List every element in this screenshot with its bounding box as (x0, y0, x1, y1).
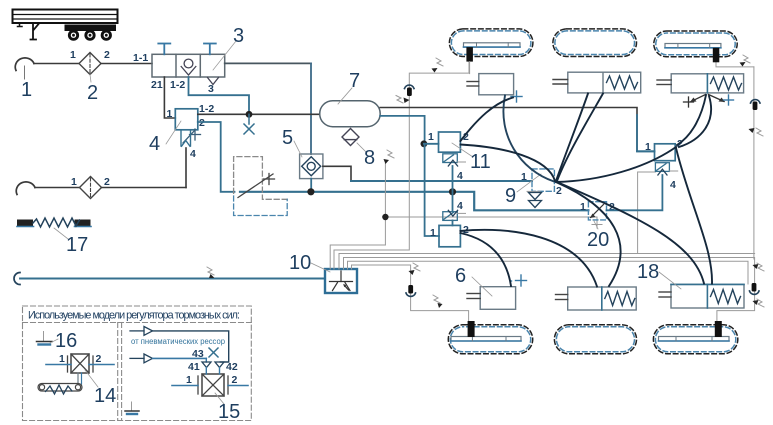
test point V1 y266 (753, 263, 765, 271)
symbol 16 (37, 332, 53, 345)
curve TM chamber left to P (556, 94, 588, 182)
tractor dashed outline (234, 157, 288, 216)
drain X below junction (244, 114, 254, 134)
brake cam plug T3 (713, 48, 720, 63)
label 8 (357, 143, 375, 169)
test point near axle T1 (432, 58, 444, 73)
svg-text:14: 14 (94, 385, 116, 407)
test point V1 y130 (749, 128, 764, 136)
port labels 14 (59, 353, 102, 365)
port labels valve 4 (167, 103, 215, 160)
blue bus L2 (240, 192, 588, 211)
wire valve 11 port4 down (452, 166, 454, 211)
curve TR divider to right valve port2 steep (677, 95, 706, 145)
port labels valve 20 (580, 201, 615, 213)
svg-text:16: 16 (55, 330, 77, 352)
port labels right valve (645, 138, 683, 191)
svg-text:3: 3 (208, 83, 214, 95)
brake chamber top-left (467, 74, 514, 281)
svg-text:1: 1 (70, 49, 76, 61)
valve 3 test ports (158, 44, 216, 55)
models box (23, 306, 252, 421)
svg-text:4: 4 (149, 133, 160, 155)
svg-text:1: 1 (580, 201, 586, 213)
svg-text:9: 9 (505, 185, 516, 207)
curve valve11 port2 to P (460, 145, 555, 182)
svg-text:41: 41 (188, 361, 200, 373)
wire 5 right to L1 (323, 166, 351, 181)
svg-text:7: 7 (349, 70, 360, 92)
svg-text:6: 6 (455, 265, 466, 287)
svg-text:15: 15 (218, 401, 240, 423)
hand lever symbol (238, 174, 275, 198)
test point near axle T3 (740, 55, 751, 67)
svg-text:1: 1 (428, 131, 434, 143)
svg-text:8: 8 (364, 147, 375, 169)
curve P to right valve port2 (556, 147, 676, 182)
port labels filter 2 (70, 49, 110, 61)
valve 4 check valve port 4 (181, 130, 191, 147)
wire right valve port1 (637, 150, 655, 152)
lower relay valve check valve (443, 210, 458, 220)
svg-text:1-1: 1-1 (133, 52, 148, 64)
svg-text:17: 17 (66, 234, 88, 256)
node junction on 1-2 line (246, 111, 253, 118)
brake chamber top-right spring (657, 74, 744, 93)
label 16 (50, 330, 77, 352)
svg-text:4: 4 (457, 200, 463, 212)
label 11 (452, 143, 491, 173)
svg-text:3: 3 (233, 25, 244, 47)
svg-text:1: 1 (59, 353, 65, 365)
svg-text:2: 2 (556, 185, 562, 197)
chamber 6 (467, 287, 516, 310)
svg-text:1-2: 1-2 (170, 79, 185, 91)
valve 20 dashed (588, 202, 606, 220)
svg-text:4: 4 (670, 179, 676, 191)
svg-text:18: 18 (637, 261, 659, 283)
wire valve4 port2 to bus (198, 122, 235, 192)
label 4 (149, 121, 181, 155)
long blue line to valve 10 (14, 273, 325, 285)
43 cross (209, 348, 218, 357)
plus chamber 6 (516, 275, 527, 286)
filter lower (80, 177, 102, 199)
test point on y310 line (433, 295, 443, 308)
plus top-left chamber (511, 91, 522, 102)
test point V1 y302 (753, 299, 765, 307)
axle oval B3 (653, 325, 737, 354)
curve P to BM chamber right (557, 183, 621, 287)
svg-text:5: 5 (282, 127, 293, 149)
label 3 (213, 25, 244, 70)
axle bar T1 (464, 43, 521, 47)
wire 20 port2 to right valve port4 (607, 175, 663, 210)
exhaust bottom right V1 (750, 283, 760, 294)
control bundle from valve 10 (330, 62, 754, 321)
axle oval T2 (553, 29, 637, 57)
wire 2 to 3 (101, 63, 152, 65)
axle bar B3 (659, 337, 730, 342)
svg-text:20: 20 (587, 229, 609, 251)
svg-text:Используемые модели регулятора: Используемые модели регулятора тормозных… (28, 310, 240, 322)
wire lower filter to valve4 port4 (102, 187, 187, 189)
svg-text:2: 2 (199, 117, 205, 129)
brake cam plug T1 (466, 47, 473, 62)
svg-text:4: 4 (457, 170, 463, 182)
axle oval B1 (448, 325, 532, 354)
node bus junction x452 (449, 188, 456, 195)
svg-text:21: 21 (151, 79, 163, 91)
svg-text:1: 1 (167, 108, 173, 120)
filter 2 (79, 53, 101, 75)
label 15 (215, 393, 240, 423)
port labels filter lower (71, 176, 110, 188)
triangle feed 2 (130, 354, 206, 363)
exhaust symbol right box (125, 402, 139, 414)
silencer on x409 (396, 85, 414, 103)
svg-text:2: 2 (104, 176, 110, 188)
valve 10 (325, 269, 357, 293)
svg-text:1: 1 (430, 227, 436, 239)
curve P to 18 left (557, 182, 704, 284)
chamber bottom-middle spring (556, 287, 637, 310)
axle oval T1 (449, 29, 533, 57)
svg-text:2: 2 (96, 353, 102, 365)
lower relay valve (439, 225, 460, 246)
relief valve 9 dashed (527, 169, 554, 192)
label 14 (85, 370, 116, 407)
port labels valve 11 (428, 131, 469, 182)
wire 5 down to bus (310, 179, 312, 192)
valve 15 (172, 368, 248, 397)
svg-text:1: 1 (186, 374, 192, 386)
brake cam plug B1 (468, 321, 475, 337)
svg-text:2: 2 (87, 82, 98, 104)
port labels lower valve (430, 224, 469, 239)
curve lower valve port2 to chamber6 (460, 233, 511, 286)
svg-text:1: 1 (21, 79, 32, 101)
brake cam plug B3 (715, 321, 722, 337)
blue bus L1 (351, 180, 532, 182)
svg-text:1: 1 (521, 171, 527, 183)
label 17 (54, 228, 88, 256)
wire 3 out right to reservoir column (225, 62, 311, 64)
svg-text:1-2: 1-2 (199, 103, 214, 115)
exhaust on x410 lower segment (406, 285, 416, 296)
node port1 valve 11 (421, 140, 428, 147)
reservoir 7 (320, 101, 381, 127)
right valve check valve (655, 163, 669, 175)
wire to valve 11 port1 (424, 143, 439, 145)
svg-text:2: 2 (232, 374, 238, 386)
wire lower coupling to filter (35, 187, 80, 189)
spring 17 (17, 218, 91, 227)
curve chamber TL to P (503, 96, 554, 182)
right sub-box: triangle feed 1 (130, 327, 229, 363)
valve 3 exhaust V port 3 (208, 78, 219, 85)
valve 4 (175, 109, 198, 130)
line A blue corner overlay (637, 115, 655, 151)
label 18 (637, 261, 681, 289)
wire 3 port21 to valve4 port1 (164, 77, 175, 118)
valve 4 adjust + (183, 129, 201, 143)
label 6 (455, 265, 492, 296)
wire valve4 port4 from filter line (185, 148, 187, 188)
label 5 (282, 127, 302, 157)
chamber 18 spring (659, 284, 744, 308)
exhaust double V under 9 (529, 193, 542, 208)
test point on x410 lower segment (409, 263, 421, 275)
check valves 41 42 (202, 362, 224, 368)
svg-text:1: 1 (71, 176, 77, 188)
test point top of x385 (384, 150, 395, 164)
silencer top right V1 (751, 100, 761, 110)
coupling head lower (16, 182, 35, 195)
label 7 (338, 70, 360, 104)
label 2 (87, 75, 98, 105)
trailer icon (13, 10, 118, 41)
svg-text:11: 11 (470, 151, 491, 173)
label 1 (21, 66, 32, 101)
label 9 (505, 174, 541, 207)
release arrows under top-right chamber (684, 95, 726, 108)
curve lower valve port2 to BM chamber (460, 230, 597, 287)
right relay valve (655, 144, 676, 161)
svg-text:от пневматических рессор: от пневматических рессор (131, 337, 226, 346)
wire valve4 port1-2 to reservoir (198, 113, 320, 115)
svg-text:2: 2 (104, 49, 110, 61)
node bus junction x311 (307, 188, 314, 195)
wire 3 port1-2 down right (189, 77, 250, 111)
wire lower check to lower valve (452, 220, 454, 225)
axle bar T3 (665, 44, 721, 48)
valve block 3 (152, 54, 225, 77)
svg-text:10: 10 (289, 252, 311, 274)
test point on long line (207, 267, 215, 278)
axle bar B1 (451, 337, 521, 342)
valve 3 middle symbol (181, 59, 196, 75)
curve TR divider to right valve port2 bulged (679, 96, 711, 147)
svg-text:42: 42 (226, 361, 238, 373)
lever mechanism 14 (38, 373, 82, 394)
wire plug T1 down to chamber (469, 62, 471, 74)
curve right valve port2 to 18 (676, 148, 712, 284)
port labels 15 (186, 374, 238, 386)
wire down to lower valve port1 (425, 144, 439, 236)
coupling head 1 (15, 58, 34, 71)
port labels valve 9 (521, 171, 562, 197)
axle oval B2 (554, 325, 636, 354)
curve valve11 port2 to TL plus (460, 98, 513, 142)
valve 11 check valve (443, 154, 458, 166)
valve 11 (439, 132, 461, 152)
brake chamber top-middle spring (553, 72, 641, 93)
svg-text:43: 43 (192, 348, 204, 360)
drain diamond 8 (342, 129, 359, 146)
label 20 (587, 221, 609, 251)
wire 1 to 2 (34, 63, 79, 65)
junction dot gray x385 (382, 214, 388, 220)
axle oval T3 (654, 31, 737, 57)
main line A from reservoir (380, 108, 654, 152)
curve TM chamber right to P (557, 94, 603, 182)
port labels valve 3 (133, 52, 185, 91)
label 10 (289, 252, 330, 274)
component 5 pressure valve (300, 154, 323, 179)
svg-text:4: 4 (190, 148, 196, 160)
line B from reservoir to valve 11 (380, 116, 424, 144)
valve 14 (46, 354, 114, 373)
